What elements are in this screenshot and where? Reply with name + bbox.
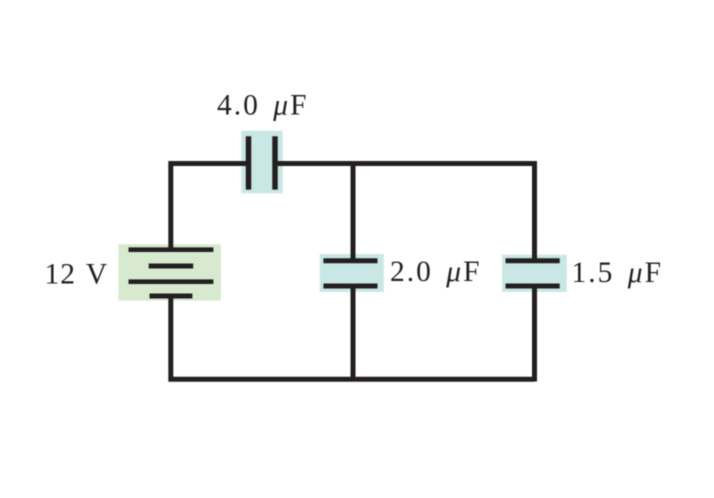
wire from C1 right plate along top to top-right corner down to C3 top plate	[275, 164, 535, 263]
svg-text:4.0 μF: 4.0 μF	[217, 89, 308, 121]
wire middle branch: C2 bottom plate down to bottom node junction	[351, 285, 356, 379]
capacitor C2 2.0 uF highlight	[320, 254, 384, 292]
capacitor C3 plates	[506, 261, 560, 286]
svg-text:2.0 μF: 2.0 μF	[390, 256, 481, 288]
svg-text:1.5 μF: 1.5 μF	[572, 257, 663, 289]
wire from battery negative terminal to bottom-left corner along bottom to bottom-right corner	[171, 294, 535, 379]
svg-text:12 V: 12 V	[45, 259, 109, 291]
capacitor C1 plates	[249, 136, 276, 189]
battery B1 12 V plates	[129, 250, 214, 296]
wire from C1 left plate to top-left corner down to battery positive terminal	[171, 164, 249, 251]
wire right branch: C3 bottom plate down to bottom-right corner	[532, 285, 537, 382]
battery B1 highlight	[118, 244, 220, 300]
capacitor C3 1.5 uF highlight	[502, 255, 567, 292]
capacitor C2 plates	[323, 261, 377, 286]
wire middle branch: top node junction down to C2 top plate	[351, 161, 356, 262]
capacitor C1 4.0 uF highlight	[241, 131, 282, 193]
